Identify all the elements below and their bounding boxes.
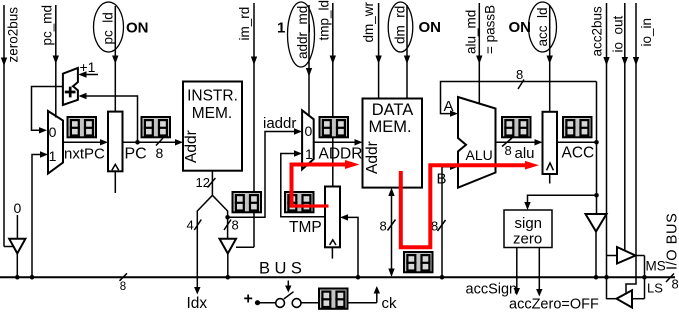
wire im_rd control <box>236 3 257 247</box>
svg-text:tmp_ld: tmp_ld <box>317 0 332 41</box>
wire red arrow into ACC <box>525 161 539 170</box>
tri-state buffer T2 (instr to iaddr) <box>220 239 237 254</box>
svg-text:8: 8 <box>232 218 239 233</box>
svg-text:0: 0 <box>305 123 313 139</box>
svg-text:4: 4 <box>187 218 194 233</box>
svg-text:BUS: BUS <box>259 259 306 277</box>
wire mux M1 to PC <box>63 139 108 145</box>
mux M1 nxtPC <box>48 111 63 174</box>
wire zero2bus control <box>1 5 13 247</box>
svg-text:ALU: ALU <box>466 147 493 163</box>
svg-text:acc2bus: acc2bus <box>590 6 605 57</box>
wire T1 to bus <box>15 253 20 280</box>
svg-text:0: 0 <box>49 124 57 140</box>
node addr_md <box>288 2 315 67</box>
display DM data value <box>404 252 433 272</box>
wire accSign output <box>514 248 520 296</box>
wire PC to instruction memory Addr <box>123 138 184 146</box>
svg-text:alu: alu <box>515 145 535 162</box>
wire ACC output vertical to T3 <box>596 82 598 215</box>
svg-text:B: B <box>437 171 447 188</box>
sign zero unit <box>504 210 552 248</box>
svg-text:+: + <box>244 291 253 308</box>
svg-text:8: 8 <box>380 219 387 234</box>
wire adder A1 output to mux M1 input 0 <box>32 87 63 134</box>
svg-text:zero2bus: zero2bus <box>6 7 21 63</box>
register TMP <box>325 187 340 248</box>
node acc_ld <box>529 2 557 52</box>
svg-text:ON: ON <box>126 20 149 37</box>
display nxtPC value <box>68 117 97 137</box>
svg-text:accZero=OFF: accZero=OFF <box>509 297 599 312</box>
wire dm_wr control <box>375 3 381 99</box>
svg-text:ON: ON <box>509 19 532 36</box>
display ADDR value <box>320 117 349 137</box>
wire T3 to bus <box>594 232 599 280</box>
wire ALU output to ACC 8 alu <box>496 138 543 147</box>
wire pc_md control <box>53 5 59 118</box>
svg-text:8: 8 <box>516 67 523 82</box>
svg-text:acc_ld: acc_ld <box>535 7 550 46</box>
wire acc2bus control <box>603 3 609 299</box>
svg-text:pc_md: pc_md <box>40 5 55 46</box>
wire addr_md control <box>306 5 312 116</box>
svg-text:12: 12 <box>196 175 210 190</box>
svg-text:im_rd: im_rd <box>237 7 252 41</box>
wire mux M2 to DM Addr <box>314 139 363 145</box>
svg-text:ACC: ACC <box>562 145 595 162</box>
register PC <box>108 112 123 172</box>
display instruction value <box>233 192 262 212</box>
svg-text:I/O BUS: I/O BUS <box>665 213 679 270</box>
svg-text:nxtPC: nxtPC <box>64 146 105 163</box>
svg-text:ON: ON <box>419 19 442 36</box>
svg-text:io_in: io_in <box>639 18 654 47</box>
svg-text:1: 1 <box>277 20 285 37</box>
svg-text:PC: PC <box>125 146 147 163</box>
wire +1 constant stub <box>78 71 98 77</box>
data memory DM <box>363 99 423 188</box>
wire acc_ld control <box>547 5 553 112</box>
display ck counter <box>319 289 348 309</box>
wire red DM data down-around to ALU B <box>401 165 527 247</box>
register ACC <box>543 112 558 174</box>
wire iaddr to mux M2 input 0 <box>228 128 302 217</box>
wire PC clock stub <box>114 171 116 193</box>
wire pc_ld control <box>112 6 118 112</box>
display alu value <box>502 117 531 137</box>
wire TMP output to mux M2 input 1 <box>281 150 325 217</box>
display ACC value <box>563 117 592 137</box>
wire bus to mux M1 input 1 <box>30 151 48 279</box>
display TMP value <box>285 192 314 212</box>
svg-text:accSign: accSign <box>466 282 518 298</box>
svg-text:DATA: DATA <box>372 101 414 119</box>
wire io_in control <box>626 3 639 293</box>
wire bus to TMP input <box>340 214 360 279</box>
wire accZero output <box>536 248 542 297</box>
svg-text:8: 8 <box>156 145 164 161</box>
svg-text:iaddr: iaddr <box>263 115 296 132</box>
svg-text:sign: sign <box>515 215 543 232</box>
adder +1 A1 <box>63 68 78 105</box>
wire fork to iaddr 8 <box>212 195 231 239</box>
svg-text:1: 1 <box>305 146 313 162</box>
wire MS buffer loop <box>607 256 647 299</box>
svg-text:LS: LS <box>647 281 663 296</box>
node pc_ld <box>94 2 124 52</box>
svg-text:io_out: io_out <box>611 15 626 52</box>
svg-text:ck: ck <box>382 295 398 312</box>
svg-text:pc_ld: pc_ld <box>101 12 116 44</box>
wire alu_md control <box>476 3 482 104</box>
wire ACC clock stub <box>549 174 551 184</box>
tri-state buffer T1 (zero const to bus) <box>9 239 25 254</box>
display PC value <box>142 117 171 137</box>
svg-text:MEM.: MEM. <box>368 118 411 136</box>
wire bus to ALU B 8 <box>438 164 459 280</box>
svg-text:dm_rd: dm_rd <box>393 6 408 44</box>
bus BUS <box>0 276 675 278</box>
svg-text:+1: +1 <box>80 59 96 75</box>
mux M2 ADDR <box>302 110 314 169</box>
svg-text:8: 8 <box>505 143 512 158</box>
node zero constant <box>16 215 18 239</box>
node dm_rd <box>388 2 413 52</box>
wire I/O BUS 8 <box>666 274 674 283</box>
svg-text:alu_md: alu_md <box>464 10 479 54</box>
wire ACC output right <box>557 140 599 145</box>
svg-text:Addr: Addr <box>364 141 381 174</box>
svg-text:1: 1 <box>49 148 57 164</box>
svg-text:Idx: Idx <box>187 295 208 312</box>
wire IM instruction output 12 <box>207 171 215 196</box>
wire PC feedback to adder A1 <box>78 93 139 145</box>
svg-text:ADDR: ADDR <box>319 146 363 163</box>
tri-state buffer T4 (bus to I/O MS) <box>617 247 636 264</box>
wire io_out control <box>622 3 628 250</box>
wire fork to Idx 4 <box>194 195 212 294</box>
tri-state buffer T3 (ACC to bus) <box>586 214 607 232</box>
svg-text:A: A <box>444 98 454 115</box>
svg-text:INSTR.: INSTR. <box>187 87 238 104</box>
svg-text:8: 8 <box>120 281 126 293</box>
wire ck circuit <box>255 281 380 308</box>
wire ACC feedback to ALU A 8 <box>441 80 597 117</box>
svg-text:zero: zero <box>513 231 542 248</box>
wire red ADDR to DM Addr arrow <box>345 160 360 169</box>
wire tmp_ld control <box>330 3 336 187</box>
svg-text:Addr: Addr <box>183 130 200 163</box>
svg-text:MEM.: MEM. <box>192 105 232 122</box>
wire TMP clock stub <box>331 247 333 258</box>
svg-text:addr_md: addr_md <box>295 6 310 59</box>
tri-state buffer T5 (I/O LS to bus) <box>617 290 633 307</box>
svg-text:= passB: = passB <box>483 5 498 54</box>
instruction memory IM <box>183 82 242 171</box>
ALU U1 <box>458 97 496 188</box>
wire LS buffer loop <box>607 298 645 300</box>
svg-text:dm_wr: dm_wr <box>361 1 376 42</box>
svg-text:MS: MS <box>646 259 666 274</box>
wire red TMP output highlight <box>292 204 329 207</box>
svg-text:0: 0 <box>14 200 22 216</box>
wire T2 to bus <box>226 253 231 280</box>
wire dm_rd control <box>404 5 410 99</box>
wire DM data to bus 8 <box>388 188 396 277</box>
svg-text:TMP: TMP <box>289 219 322 236</box>
svg-text:8: 8 <box>672 277 679 292</box>
wire ACC output to sign zero <box>524 193 599 210</box>
